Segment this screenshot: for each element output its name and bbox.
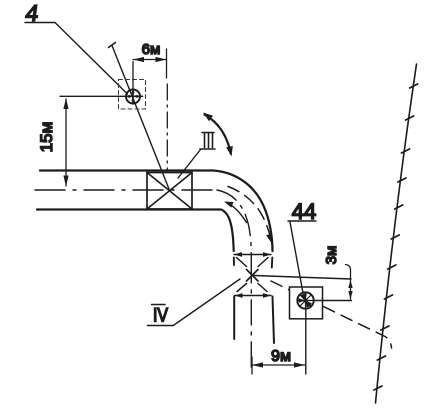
- signal line top tick: [109, 43, 116, 48]
- dimension 9m line: [252, 364, 305, 366]
- dimension 6m arrows: [133, 57, 144, 62]
- centerline vertical dash-dot: [250, 258, 252, 372]
- double arrow head upper: [203, 113, 213, 122]
- centerline curve dash-dot: [217, 190, 251, 258]
- boundary tick line: [376, 64, 417, 403]
- lamp 1 circle: [126, 90, 140, 104]
- lamp 2 filled wedges: [298, 294, 311, 308]
- svg-text:6м: 6м: [142, 41, 161, 58]
- crossing box III: [147, 173, 192, 210]
- svg-text:3м: 3м: [323, 246, 340, 265]
- label 44 underline: [288, 220, 316, 222]
- lamp 2 vertical extension down: [305, 309, 307, 375]
- dimension 15m extension horizontal: [60, 95, 126, 97]
- crossing diagonal rays: [237, 258, 269, 292]
- dimension 15m arrows: [63, 98, 68, 109]
- road left edge lower segment: [233, 297, 235, 340]
- svg-text:IV: IV: [153, 306, 168, 327]
- lamp 2 center dot: [304, 299, 308, 303]
- label 44 leader: [290, 222, 303, 293]
- dimension 9m arrows: [252, 362, 263, 367]
- box diagonal 2: [147, 173, 192, 210]
- svg-text:9м: 9м: [271, 348, 291, 365]
- lamp 2 circle: [297, 292, 313, 308]
- double-headed curved arrow: [205, 115, 231, 154]
- crossing lower width line: [235, 295, 272, 297]
- road right edge lower segment: [273, 297, 275, 344]
- lamp 1 cross horizontal: [126, 95, 143, 97]
- label IV leader: [174, 279, 240, 325]
- trajectory arrowhead: [266, 234, 272, 244]
- signal aiming line through lamp 1: [112, 46, 169, 190]
- svg-text:15м: 15м: [37, 122, 56, 153]
- label 4 leader: [55, 23, 128, 95]
- small curved arrow head: [224, 202, 234, 208]
- road top edge with curve: [40, 171, 273, 252]
- lamp 2 spokes: [298, 293, 314, 310]
- lamp 2 square: [290, 287, 323, 319]
- label III strokes: [205, 133, 213, 148]
- crossing upper width line: [234, 254, 271, 256]
- dimension 9m left extension: [251, 357, 253, 374]
- crossing point X mark: [247, 270, 259, 282]
- road right edge stub above crossing: [271, 258, 274, 268]
- dimension 6m extension right solid: [166, 49, 168, 78]
- dimension 3m line: [346, 265, 351, 300]
- centerline horizontal dash-dot: [35, 189, 217, 191]
- label 4 underline: [25, 22, 55, 24]
- lamp 1 dashed square: [119, 80, 146, 110]
- label III leader: [178, 150, 201, 179]
- label III underline: [200, 148, 215, 150]
- dashed sight line to boundary: [271, 281, 392, 348]
- dimension 6m line: [133, 59, 167, 61]
- lamp 2 horizontal line: [314, 300, 352, 302]
- box diagonal 1: [147, 173, 192, 210]
- dimension 3m arrows: [348, 280, 352, 288]
- label IV underline: [148, 325, 174, 327]
- dimension 15m line: [65, 99, 67, 186]
- lamp 1 inner dots: [128, 91, 138, 102]
- lamp 1 cross vertical: [132, 89, 134, 104]
- small curved arrow in lane: [227, 203, 247, 223]
- road bottom edge with curve: [37, 210, 234, 252]
- road left edge stub above crossing: [233, 258, 235, 266]
- double arrow head lower: [226, 146, 233, 157]
- dashed turning trajectory arc: [228, 187, 271, 240]
- label III top bar: [202, 132, 214, 134]
- boundary ticks: [374, 84, 418, 390]
- dimension 6m extension left: [132, 62, 134, 90]
- label IV overbar: [152, 304, 166, 306]
- horizontal line from crossing to right: [254, 276, 351, 280]
- box axis vertical dash-dot: [166, 84, 168, 172]
